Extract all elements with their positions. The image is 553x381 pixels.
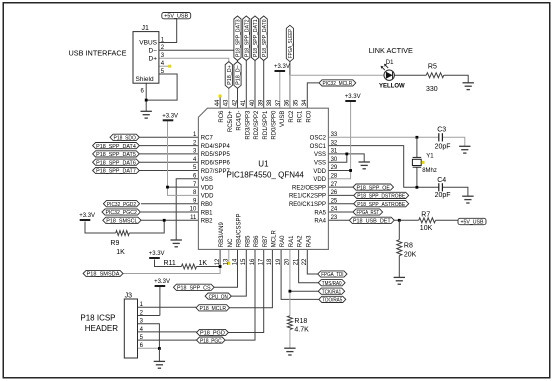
node P18_SPP_DAT0	[260, 16, 268, 61]
svg-text:RB0: RB0	[201, 202, 213, 208]
node P18_SPP_DSTROBE	[354, 192, 409, 199]
svg-text:25: 25	[331, 198, 338, 204]
svg-text:NC: NC	[228, 238, 234, 247]
capacitor C3	[435, 127, 451, 151]
svg-text:C4: C4	[437, 177, 446, 184]
svg-text:Shield: Shield	[136, 76, 154, 83]
svg-text:+5V_USB: +5V_USB	[164, 13, 189, 19]
junction +3.3V pin29	[349, 169, 352, 172]
svg-text:10: 10	[190, 207, 197, 213]
svg-text:4.7K: 4.7K	[294, 326, 309, 333]
wire to R8	[398, 220, 400, 239]
wire J1 pin6 to ground	[145, 83, 147, 111]
wire J1 pin4 no-connect stub	[159, 65, 169, 67]
svg-text:+3.3V: +3.3V	[79, 213, 95, 219]
wire J1 pin5 shield	[146, 74, 177, 100]
svg-text:P18_SMSCL: P18_SMSCL	[106, 219, 138, 225]
wire OSC2 row to C3	[328, 136, 438, 138]
svg-text:RB3/AN9: RB3/AN9	[219, 222, 225, 248]
wire U1 pin7 VDD	[168, 186, 199, 188]
node P18_SPP_CS	[173, 284, 214, 291]
svg-text:RA4: RA4	[314, 219, 326, 225]
svg-text:34: 34	[302, 99, 308, 106]
svg-text:R8: R8	[404, 242, 413, 249]
node P18_MCLR	[196, 305, 230, 312]
svg-text:RD5/SPP5: RD5/SPP5	[201, 152, 231, 158]
svg-text:RD3/SPP3: RD3/SPP3	[245, 110, 251, 140]
resistor R8	[397, 240, 402, 256]
wire U1 pin16 to P18_PGC	[225, 249, 255, 340]
svg-text:FPGA_RST: FPGA_RST	[357, 210, 380, 216]
node P18_SPP_ASTROBE	[354, 201, 409, 208]
wire +3.3V rail left	[168, 121, 199, 195]
svg-text:28: 28	[331, 174, 338, 180]
svg-text:P18_PGC: P18_PGC	[200, 338, 222, 344]
power +3.3V VUSB	[274, 64, 290, 71]
svg-text:C3: C3	[437, 127, 446, 134]
ground under J1	[141, 111, 152, 118]
junction R9/P18_SMSCL	[163, 219, 166, 222]
svg-text:RB5: RB5	[245, 235, 251, 247]
svg-text:30: 30	[331, 157, 338, 163]
wire USB D- net J1.2 to U1.42	[159, 50, 238, 108]
no-connect marker J1 pin4	[168, 65, 171, 68]
svg-text:VDD: VDD	[313, 169, 326, 175]
svg-text:P18_SPP_DAT6: P18_SPP_DAT6	[96, 160, 136, 166]
capacitor C4	[435, 177, 451, 199]
connector J1 USB	[133, 25, 165, 94]
wire R11 right to pin12	[197, 249, 221, 266]
wire R5 to ground	[444, 75, 468, 82]
svg-text:PIC18F4550_ QFN44: PIC18F4550_ QFN44	[227, 171, 305, 180]
node FPGA_RST	[353, 209, 383, 216]
svg-text:U1: U1	[258, 159, 269, 168]
wire U1 pin41 DAT3	[237, 61, 239, 109]
wire U1 pin23 wire	[328, 219, 349, 221]
wire Y1 top lead	[416, 137, 418, 157]
svg-text:20: 20	[285, 258, 291, 265]
power +3.3V J3	[154, 279, 170, 286]
svg-text:19: 19	[276, 258, 282, 265]
svg-text:43: 43	[224, 99, 230, 106]
svg-text:P18_SPP_DAT4: P18_SPP_DAT4	[96, 144, 136, 150]
wire USB_DET to R7	[394, 219, 419, 221]
wire J3 pin5 to P18_PGC	[138, 339, 197, 341]
svg-text:P18_USB_DET: P18_USB_DET	[353, 219, 391, 225]
wire R9 right to pin11	[129, 220, 164, 233]
svg-text:42: 42	[232, 99, 238, 106]
crystal Y1 8Mhz	[412, 153, 436, 174]
wire U1 pin22 to FPGA_TDI	[307, 249, 317, 274]
wire U1 pin10 wire	[141, 211, 198, 213]
wire U1 pin27 wire	[328, 186, 353, 188]
node P18_SPP_DAT1	[251, 16, 259, 61]
svg-text:38: 38	[267, 99, 273, 106]
svg-text:17: 17	[259, 258, 265, 265]
svg-text:23: 23	[331, 215, 338, 221]
resistor R9	[116, 231, 130, 236]
svg-text:P18_SMSDA: P18_SMSDA	[87, 272, 120, 278]
junction TCK/pin20	[289, 290, 292, 293]
node P18_SPP_DAT2	[243, 16, 251, 61]
resistor R5	[426, 73, 444, 78]
wire P18_SMSDA to pin12	[123, 267, 220, 274]
power +3.3V R11	[149, 251, 165, 258]
svg-text:39: 39	[259, 99, 265, 106]
svg-text:33: 33	[331, 132, 338, 138]
svg-text:VBUS: VBUS	[139, 40, 157, 47]
svg-text:26: 26	[331, 190, 338, 196]
wire U1 pin13 NC stub	[228, 249, 230, 262]
svg-text:20pF: 20pF	[435, 192, 451, 199]
junction J3 ground	[158, 347, 161, 350]
junction OSC2/Y1	[416, 136, 419, 139]
node P18_SPP_DAT6	[93, 159, 140, 166]
svg-text:USB INTERFACE: USB INTERFACE	[69, 48, 127, 57]
ground after C4	[462, 196, 473, 203]
svg-text:20pF: 20pF	[435, 144, 451, 151]
svg-text:TDO/RA5: TDO/RA5	[322, 298, 342, 304]
node CPU_ON	[205, 293, 231, 300]
wire R11 left	[155, 260, 182, 267]
wire U1 pin19 to TDO/RA5	[281, 249, 319, 299]
wire U1 pin5 wire	[139, 170, 198, 172]
svg-text:VSS: VSS	[314, 161, 326, 167]
svg-text:D1: D1	[386, 60, 394, 66]
svg-text:R18: R18	[294, 318, 307, 325]
wire U1 pin2 wire	[139, 145, 198, 147]
svg-text:P18_SPP_DAT3: P18_SPP_DAT3	[236, 19, 242, 57]
ground under R8	[394, 277, 405, 284]
wire U1 pin15 to CPU_ON	[231, 249, 246, 296]
wire U1 pin20 to R18	[289, 249, 291, 315]
svg-text:+3.3V: +3.3V	[274, 64, 290, 70]
svg-text:+5V_USB: +5V_USB	[461, 219, 485, 225]
svg-text:D+: D+	[149, 55, 158, 62]
node TDO/RA5	[319, 296, 346, 303]
svg-text:10K: 10K	[420, 225, 433, 232]
svg-text:P18_SPP_DSTROBE: P18_SPP_DSTROBE	[357, 194, 405, 200]
node PIC32_PGC2	[102, 209, 140, 216]
no-connect marker U1 pin13	[227, 262, 230, 265]
svg-text:12: 12	[215, 258, 221, 265]
svg-text:R7: R7	[421, 211, 430, 218]
wire J3 ground stem	[158, 349, 160, 362]
svg-text:PIC32_PGD2: PIC32_PGD2	[107, 202, 136, 208]
svg-text:TCK/RA1: TCK/RA1	[322, 289, 341, 295]
ground right VSS	[359, 162, 370, 169]
resistor R18	[287, 316, 292, 330]
svg-text:VSS: VSS	[201, 177, 213, 183]
junction OSC1/Y1/C4	[416, 186, 419, 189]
wire U1 pin34 to PIC32_MCLR	[307, 83, 319, 108]
wire U1 pin4 wire	[139, 161, 198, 163]
junction J1 shield	[145, 99, 148, 102]
svg-text:14: 14	[232, 258, 238, 265]
svg-text:P18_D+: P18_D+	[227, 65, 233, 85]
svg-text:RC7: RC7	[201, 136, 214, 142]
svg-text:D−: D−	[149, 48, 158, 55]
svg-text:J3: J3	[125, 292, 133, 299]
svg-text:RA0: RA0	[280, 235, 286, 247]
svg-text:VDD: VDD	[201, 194, 214, 200]
wire U1 pin3 wire	[139, 153, 198, 155]
wire J3 pin1 to P18_MCLR	[138, 306, 196, 308]
wire J1 pin1 VBUS to +5V_USB	[159, 19, 177, 43]
svg-text:32: 32	[331, 140, 338, 146]
node P18_SPP_DAT4	[93, 143, 140, 150]
svg-text:RB2: RB2	[201, 219, 213, 225]
svg-text:PIC32_MCLR: PIC32_MCLR	[323, 81, 353, 87]
svg-text:RB7: RB7	[263, 235, 269, 247]
svg-text:PIC32_PGC2: PIC32_PGC2	[106, 210, 137, 216]
ground after R5	[463, 83, 474, 90]
node TMS/RA0	[318, 280, 345, 287]
node P18_SPP_DAT7	[93, 167, 140, 174]
wire J3 pin6	[138, 347, 160, 349]
wire C4 to ground	[442, 187, 468, 196]
node PIC32_MCLR	[319, 80, 356, 87]
svg-text:RC0: RC0	[306, 110, 312, 123]
wire Y1 bottom lead	[416, 167, 418, 187]
svg-text:RC1: RC1	[298, 110, 304, 123]
node FPGA_TDI	[318, 271, 347, 278]
ground under J3	[154, 361, 165, 368]
svg-text:1K: 1K	[116, 249, 125, 256]
node P18_SMSDA	[83, 270, 123, 277]
wire U1 pin14 to P18_SPP_CS	[214, 249, 237, 287]
svg-text:R5: R5	[428, 63, 437, 70]
op-amp U1 PIC18F4550 QFN44	[198, 108, 328, 249]
wire U1 pin38 DAT0	[263, 61, 265, 109]
wire U1 pin21 to TMS/RA0	[299, 249, 319, 282]
wire U1 pin31 VSS to ground	[328, 154, 364, 162]
svg-text:RE2/OESPP: RE2/OESPP	[292, 185, 326, 191]
node P18_PGC	[197, 337, 226, 344]
svg-text:+3.3V: +3.3V	[345, 94, 361, 100]
node P18_SMSCL	[103, 217, 141, 224]
junction R7/R8	[398, 219, 401, 222]
connector J3 ICSP	[124, 292, 143, 358]
wire U1 pin18 to P18_MCLR	[230, 249, 273, 307]
svg-text:41: 41	[241, 99, 247, 106]
wire U1 pin26 wire	[328, 194, 353, 196]
svg-text:1K: 1K	[199, 260, 208, 267]
wire R7 to +5V_USB	[436, 219, 459, 221]
resistor R11	[181, 264, 196, 269]
wire TCK/RA1 branch	[290, 290, 318, 292]
svg-text:RD1/SPP1: RD1/SPP1	[263, 110, 269, 140]
junction VSS right	[345, 153, 348, 156]
power +3.3V R9	[79, 213, 95, 220]
svg-text:RA3: RA3	[306, 235, 312, 247]
node P18_USB_DET	[349, 217, 394, 224]
wire U1 pin40 DAT2	[245, 61, 247, 109]
svg-text:330: 330	[426, 86, 438, 93]
node P18_PGD	[197, 329, 229, 336]
svg-text:OSC1: OSC1	[310, 144, 327, 150]
wire J3 pin4 to P18_PGD	[138, 331, 197, 333]
wire USB D+ net J1.3 to U1.43	[159, 58, 229, 108]
svg-text:8Mhz: 8Mhz	[422, 168, 437, 174]
node PIC32_PGD2	[103, 201, 139, 208]
svg-text:24: 24	[331, 207, 338, 213]
node P18_SDO	[110, 134, 139, 141]
node P18_SPP_OE	[353, 184, 394, 191]
svg-text:Y1: Y1	[426, 153, 434, 159]
wire U1 pin29 VDD	[328, 170, 350, 172]
svg-text:13: 13	[224, 258, 230, 265]
wire +3.3V rail right	[328, 102, 350, 179]
svg-text:44: 44	[215, 99, 221, 106]
wire U1 pin39 DAT1	[254, 61, 256, 109]
wire U1 pin30 VSS joins pin31	[328, 154, 346, 162]
svg-text:31: 31	[331, 149, 338, 155]
LED D1	[379, 60, 405, 90]
wire U1 pin44 NC stub	[219, 97, 221, 109]
svg-text:16: 16	[250, 258, 256, 265]
ground left VSS	[171, 240, 182, 247]
node P18_SPP_DAT3	[234, 16, 242, 61]
power +5V_USB top	[162, 13, 191, 20]
wire J3 pin3 to ground rail	[138, 324, 160, 349]
svg-text:RD0/SPP0: RD0/SPP0	[272, 110, 278, 140]
svg-text:FPGA_TDI: FPGA_TDI	[321, 272, 344, 278]
svg-text:RD2/SPP2: RD2/SPP2	[254, 110, 260, 140]
svg-text:22: 22	[302, 258, 308, 265]
svg-text:P18_SPP_DAT0: P18_SPP_DAT0	[262, 19, 268, 57]
svg-text:+3.3V: +3.3V	[154, 279, 170, 285]
node P18_SPP_DAT5	[93, 151, 140, 158]
svg-text:RB6: RB6	[254, 235, 260, 247]
svg-text:P18_MCLR: P18_MCLR	[200, 306, 227, 312]
svg-text:RD6/SPP6: RD6/SPP6	[201, 161, 231, 167]
ground after C3	[459, 146, 470, 153]
svg-text:R9: R9	[110, 240, 119, 247]
wire U1 pin9 wire	[141, 203, 198, 205]
no-connect marker U1 pin44	[219, 95, 222, 98]
ground under R18	[284, 348, 295, 355]
svg-text:P18_SDO: P18_SDO	[114, 136, 137, 142]
svg-text:P18_SPP_DAT2: P18_SPP_DAT2	[245, 19, 251, 57]
svg-text:TMS/RA0: TMS/RA0	[322, 281, 342, 287]
wire LED to R5	[394, 74, 426, 76]
svg-text:VDD: VDD	[313, 177, 326, 183]
svg-text:P18_SPP_OE: P18_SPP_OE	[356, 185, 390, 191]
svg-text:RA1: RA1	[289, 235, 295, 247]
wire U1 pin25 wire	[328, 203, 353, 205]
svg-text:MCLR: MCLR	[272, 230, 278, 248]
svg-text:18: 18	[267, 258, 273, 265]
junction +3.3V pin7	[166, 186, 169, 189]
node FPGA_SLEEP	[286, 25, 294, 61]
svg-text:RD7/SPP7: RD7/SPP7	[201, 169, 231, 175]
wire R9 left	[85, 222, 116, 234]
wire U1 pin35 FPGA_SLEEP wire	[289, 62, 291, 109]
svg-text:36: 36	[285, 99, 291, 106]
svg-text:R11: R11	[164, 260, 176, 267]
svg-text:P18_SPP_DAT7: P18_SPP_DAT7	[96, 169, 136, 175]
power +3.3V left VDD	[162, 114, 178, 121]
svg-text:11: 11	[190, 215, 197, 221]
power +5V_USB right	[458, 218, 486, 225]
node P18_D-	[234, 62, 242, 89]
svg-text:P18_SPP_CS: P18_SPP_CS	[177, 286, 211, 292]
wire OSC1 row to C4	[328, 146, 438, 188]
svg-text:RB4/CSSPP: RB4/CSSPP	[237, 214, 243, 248]
svg-text:RA5: RA5	[314, 210, 326, 216]
svg-text:40: 40	[250, 99, 256, 106]
svg-text:27: 27	[331, 182, 338, 188]
svg-text:RC4/D-: RC4/D-	[237, 111, 243, 131]
svg-text:LINK ACTIVE: LINK ACTIVE	[369, 46, 413, 55]
wire +3.3V to VUSB	[279, 72, 281, 108]
wire U1 pin1 wire	[139, 136, 198, 138]
no-connect marker Y1	[422, 161, 425, 164]
wire U1 pin17 to P18_PGD	[228, 249, 263, 332]
svg-text:P18_SPP_DAT5: P18_SPP_DAT5	[96, 152, 136, 158]
svg-text:P18_PGD: P18_PGD	[200, 331, 225, 337]
svg-text:VUSB: VUSB	[280, 111, 286, 127]
wire R18 to ground	[289, 330, 291, 348]
svg-text:RE1/CK2SPP: RE1/CK2SPP	[289, 194, 326, 200]
svg-text:P18_D−: P18_D−	[236, 65, 242, 85]
svg-text:HEADER: HEADER	[85, 324, 119, 333]
svg-text:P18_SPP_ASTROBE: P18_SPP_ASTROBE	[357, 202, 405, 208]
power +3.3V right VDD	[345, 94, 361, 101]
wire U1 pin24 wire	[328, 211, 353, 213]
wire C3 to ground	[442, 137, 464, 146]
svg-text:21: 21	[293, 258, 299, 265]
node P18_D+	[225, 62, 233, 89]
svg-text:15: 15	[241, 258, 247, 265]
svg-text:CPU_ON: CPU_ON	[209, 294, 228, 300]
svg-text:20K: 20K	[404, 251, 417, 258]
wire U1 pin6 VSS to ground	[176, 179, 198, 240]
svg-text:RE0/CK1SPP: RE0/CK1SPP	[289, 202, 326, 208]
svg-text:J1: J1	[142, 25, 150, 32]
wire J3 pin2 to +3.3V	[138, 287, 160, 316]
svg-text:RD4/SPP4: RD4/SPP4	[201, 144, 231, 150]
svg-text:VSS: VSS	[314, 152, 326, 158]
svg-text:RB1: RB1	[201, 210, 213, 216]
svg-text:P18_SPP_DAT1: P18_SPP_DAT1	[253, 19, 259, 57]
svg-text:RA2: RA2	[298, 235, 304, 247]
svg-text:P18 ICSP: P18 ICSP	[80, 314, 115, 323]
svg-text:RC5/D+: RC5/D+	[228, 110, 234, 132]
wire U1 pin11 wire	[141, 219, 198, 221]
svg-text:VDD: VDD	[201, 185, 214, 191]
svg-text:+3.3V: +3.3V	[162, 114, 178, 120]
svg-text:37: 37	[276, 99, 282, 106]
svg-text:RC6: RC6	[219, 110, 225, 123]
svg-text:+3.3V: +3.3V	[149, 251, 165, 257]
resistor R7	[419, 218, 436, 223]
node TCK/RA1	[318, 288, 344, 295]
wire U1 pin36 to LED D1	[290, 75, 384, 108]
svg-text:29: 29	[331, 165, 338, 171]
svg-text:RC2: RC2	[289, 110, 295, 123]
junction pin12/R11/SMSDA	[219, 265, 222, 268]
svg-text:35: 35	[293, 99, 299, 106]
svg-text:YELLOW: YELLOW	[379, 84, 405, 90]
svg-text:OSC2: OSC2	[310, 136, 327, 142]
wire R8 to ground	[398, 256, 400, 278]
svg-text:FPGA_SLEEP: FPGA_SLEEP	[288, 29, 294, 58]
